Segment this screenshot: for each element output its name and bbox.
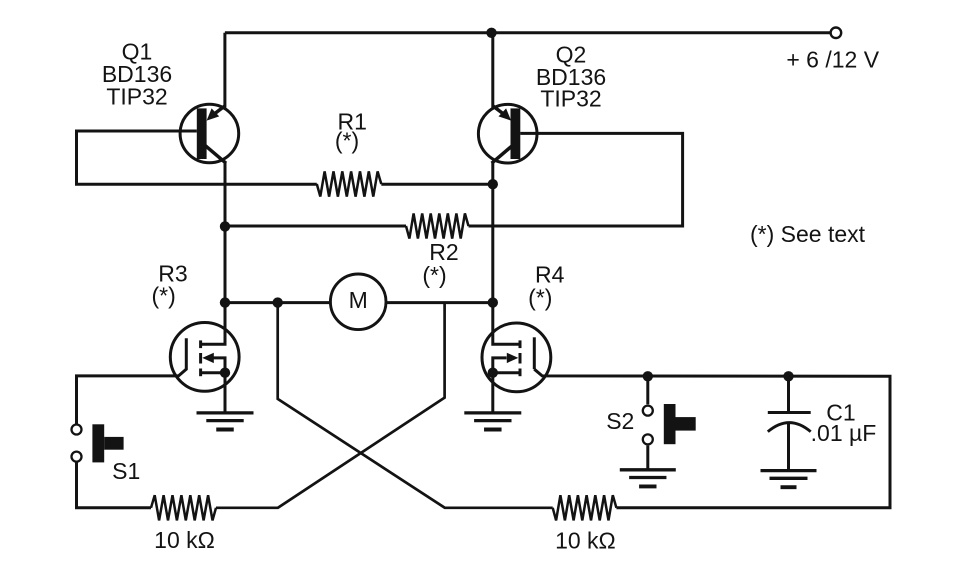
svg-text:(*): (*) xyxy=(528,285,552,311)
svg-text:10 kΩ: 10 kΩ xyxy=(555,528,616,554)
svg-text:M: M xyxy=(349,287,368,313)
svg-text:(*): (*) xyxy=(335,128,359,154)
svg-text:(*): (*) xyxy=(151,283,175,309)
svg-text:TIP32: TIP32 xyxy=(106,84,167,110)
svg-text:(*) See text: (*) See text xyxy=(750,221,866,247)
svg-text:.01 µF: .01 µF xyxy=(811,420,877,446)
svg-text:S2: S2 xyxy=(606,408,634,434)
svg-text:S1: S1 xyxy=(112,458,140,484)
svg-text:+ 6 /12 V: + 6 /12 V xyxy=(786,47,879,73)
svg-text:(*): (*) xyxy=(422,262,446,288)
svg-text:10 kΩ: 10 kΩ xyxy=(154,527,215,553)
svg-text:TIP32: TIP32 xyxy=(540,86,601,112)
